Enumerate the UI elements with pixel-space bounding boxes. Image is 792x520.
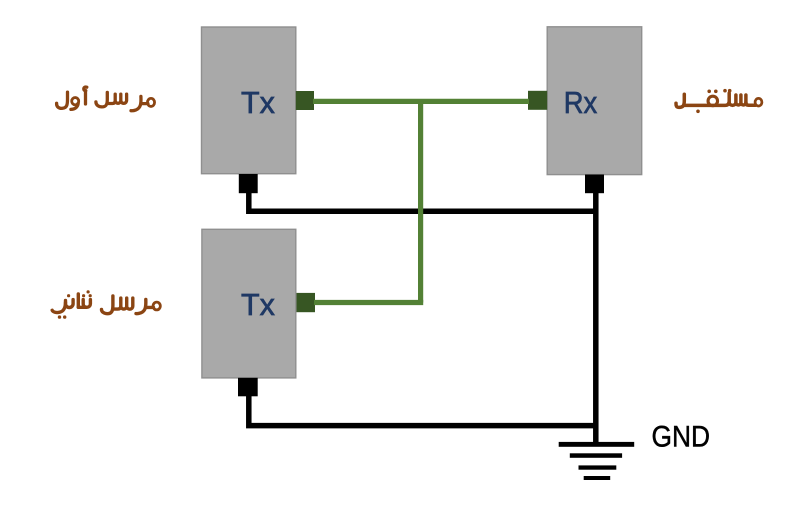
svg-text:Rx: Rx (564, 86, 598, 120)
wire Tx1 ground down and right (249, 192, 596, 211)
label "مرسل أول" (first sender) (57, 87, 155, 111)
transmitter block Tx1 (202, 27, 296, 174)
receiver block Rx (547, 27, 642, 175)
wire Rx ground down (593, 192, 599, 445)
label "مستقبل" (receiver) (676, 89, 762, 113)
pin Tx1 ground (239, 174, 258, 193)
pin Rx ground (585, 175, 604, 194)
wire green Tx2 branch horizontal (314, 300, 423, 305)
svg-text:GND: GND (652, 420, 711, 453)
wire green Tx1 to Rx (313, 99, 529, 104)
svg-text:Tx: Tx (241, 288, 275, 322)
wire Tx2 ground down and right (249, 395, 596, 426)
pin Rx data (green) (528, 91, 547, 110)
svg-text:Tx: Tx (241, 86, 275, 120)
pin Tx2 data (green) (297, 293, 316, 312)
pin Tx2 ground (238, 378, 258, 397)
ground (559, 442, 635, 480)
label "مرسل ثاني" (second sender) (52, 290, 160, 319)
transmitter block Tx2 (202, 229, 296, 378)
pin Tx1 data (green) (296, 91, 314, 110)
wire green branch vertical (418, 101, 423, 302)
